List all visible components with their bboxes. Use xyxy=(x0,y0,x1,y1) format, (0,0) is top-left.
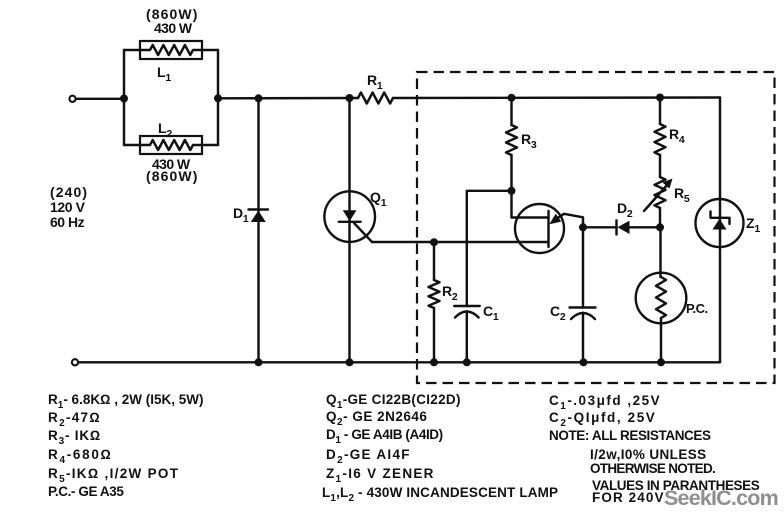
parts list column 3 xyxy=(549,393,760,505)
resistor R4 xyxy=(655,98,666,178)
svg-text:P.C.- GE A35: P.C.- GE A35 xyxy=(48,484,124,499)
wire: R3 junction to Q2 base-2 xyxy=(512,191,549,218)
node: P.C. bottom xyxy=(657,358,665,366)
node: R4 top xyxy=(656,94,664,102)
svg-text:430 W: 430 W xyxy=(154,20,193,36)
resistor R2 xyxy=(429,242,440,362)
svg-text:FOR 240V: FOR 240V xyxy=(592,490,665,505)
wire: top rail R1 to right corner xyxy=(393,96,720,99)
wire: right vertical into Z1 xyxy=(719,98,721,363)
wire: lamp left vertical xyxy=(123,50,125,145)
svg-text:(860W): (860W) xyxy=(146,168,199,184)
node: R3 top xyxy=(508,94,516,102)
node: C1 bottom xyxy=(463,358,471,366)
node: C2 bottom xyxy=(580,358,588,366)
node: D1 top xyxy=(255,94,263,102)
zener Z1 xyxy=(696,199,744,247)
resistor R3 xyxy=(506,98,517,191)
photocell P.C. xyxy=(636,227,687,362)
dashed enclosure box xyxy=(417,72,775,383)
wire: terminal to lamp node xyxy=(76,98,124,100)
svg-text:SeekIC.com: SeekIC.com xyxy=(664,486,778,510)
svg-text:60 Hz: 60 Hz xyxy=(50,214,85,230)
capacitor C1 xyxy=(454,306,480,362)
wire: top rail lamps to R1 xyxy=(218,97,358,100)
capacitor C2 xyxy=(570,227,596,362)
node: R2 bottom xyxy=(430,358,438,366)
SCR Q1 xyxy=(324,98,375,362)
lamp L1 xyxy=(124,41,218,59)
resistor R1 xyxy=(358,93,393,104)
potentiometer R5 xyxy=(644,177,673,227)
node: R2 top xyxy=(430,238,438,246)
input terminal bottom-left xyxy=(72,359,78,365)
node: Q1 anode xyxy=(346,94,354,102)
svg-text:(240): (240) xyxy=(50,184,88,200)
svg-text:P.C.: P.C. xyxy=(686,301,708,316)
node: Q2 emitter junction xyxy=(579,223,587,231)
svg-text:OTHERWISE NOTED.: OTHERWISE NOTED. xyxy=(590,461,715,476)
svg-text:NOTE: ALL RESISTANCES: NOTE: ALL RESISTANCES xyxy=(549,428,711,443)
parts list column 1 xyxy=(48,392,203,499)
input terminal top-left xyxy=(69,96,75,102)
wire: lamp right vertical xyxy=(217,50,219,145)
diode D1 xyxy=(249,98,269,362)
node: lamp left junction xyxy=(120,95,128,103)
parts list column 2 xyxy=(322,392,558,504)
transistor Q2 (UJT) xyxy=(515,204,583,253)
svg-text:I/2w,I0% UNLESS: I/2w,I0% UNLESS xyxy=(590,447,707,462)
diode D2 xyxy=(583,220,660,234)
node: D2/R5/PC junction xyxy=(656,223,664,231)
lamp L2 xyxy=(124,136,218,154)
node: Q1 cathode bottom xyxy=(346,358,354,366)
wire: bottom rail xyxy=(79,361,721,363)
node: lamp right junction xyxy=(214,94,222,102)
node: D1 bottom xyxy=(255,358,263,366)
wire: R3 junction to C1 top xyxy=(467,191,512,306)
svg-text:120 V: 120 V xyxy=(50,199,86,215)
wire: Q1 gate to Q2 base-1 xyxy=(372,241,549,243)
node: R3 bottom junction xyxy=(508,187,516,195)
